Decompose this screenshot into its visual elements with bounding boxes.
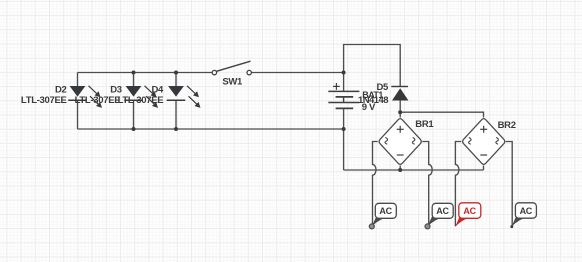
junction top rail at D4 (174, 71, 178, 75)
svg-text:LTL-307EE: LTL-307EE (75, 95, 121, 106)
wire D4 cathode lead (175, 101, 177, 129)
junction bottom rail at D3 (132, 127, 136, 131)
wire BR1 minus stub (399, 166, 401, 171)
junction BR1 plus node (398, 110, 402, 114)
wire switch to battery node (251, 72, 343, 74)
svg-text:AC: AC (463, 206, 476, 216)
junction BR1 minus node (398, 168, 402, 172)
switch SW1 (212, 61, 251, 75)
wire bottom LED rail (78, 128, 344, 130)
wire top LED rail (78, 72, 213, 74)
svg-text:D2: D2 (55, 85, 67, 96)
wire BR1 plus to BR2 plus (400, 112, 483, 117)
svg-text:1N4148: 1N4148 (358, 95, 388, 106)
wire D3 cathode lead (133, 101, 135, 129)
wire BR1 AC left to pin (373, 142, 378, 227)
svg-text:D4: D4 (151, 85, 164, 96)
svg-text:LTL-307EE: LTL-307EE (118, 95, 164, 106)
battery BAT1 (328, 83, 359, 108)
LED D4 (167, 86, 201, 108)
connector AC pin 3 (highlighted red) (455, 203, 481, 227)
bridge rectifier BR1 (379, 119, 421, 165)
svg-text:BR2: BR2 (498, 120, 516, 131)
svg-text:SW1: SW1 (222, 76, 243, 87)
wire D5 anode to BR1 plus (399, 101, 401, 118)
svg-text:BR1: BR1 (415, 119, 434, 130)
wire BR2 AC right to pin (506, 142, 512, 227)
wire bottom DC rail (344, 169, 484, 171)
svg-text:D3: D3 (110, 85, 122, 96)
svg-text:LTL-307EE: LTL-307EE (21, 95, 67, 106)
junction battery top node (342, 71, 346, 75)
svg-text:AC: AC (379, 206, 392, 216)
wire BR2 minus stub (483, 166, 485, 171)
svg-text:AC: AC (436, 206, 449, 216)
junction bottom rail at D4 (174, 127, 178, 131)
connector AC pin 4 (510, 203, 536, 228)
diode D5 (391, 86, 408, 101)
junction battery bottom node (342, 127, 346, 131)
LED D3 (124, 86, 158, 108)
wire BR1 AC right to pin (422, 142, 432, 227)
wire battery positive lead (344, 45, 401, 92)
wire D4 anode lead (175, 73, 177, 87)
connector AC pin 2 (425, 203, 453, 229)
wire battery negative lead (343, 108, 345, 170)
svg-text:AC: AC (520, 206, 533, 216)
bridge rectifier BR2 (463, 119, 505, 165)
wire D2 cathode lead (77, 101, 79, 129)
svg-text:D5: D5 (376, 82, 389, 93)
wire D2 anode lead (77, 73, 79, 87)
wire D3 anode lead (133, 73, 135, 87)
wire BR2 AC left to pin (455, 142, 461, 227)
junction top rail at D3 (132, 71, 136, 75)
connector AC pin 1 (369, 203, 396, 229)
LED D2 (68, 86, 102, 108)
